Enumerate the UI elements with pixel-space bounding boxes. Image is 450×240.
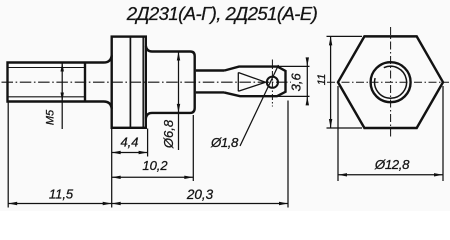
svg-text:Ø6,8: Ø6,8 — [161, 119, 176, 149]
svg-text:11: 11 — [316, 74, 328, 85]
svg-text:11,5: 11,5 — [49, 187, 74, 202]
svg-text:20,3: 20,3 — [186, 187, 214, 202]
svg-text:Ø12,8: Ø12,8 — [374, 157, 410, 172]
svg-text:10,2: 10,2 — [142, 158, 168, 173]
svg-text:2Д231(А-Г), 2Д251(А-Е): 2Д231(А-Г), 2Д251(А-Е) — [126, 3, 318, 24]
svg-text:М5: М5 — [45, 109, 57, 125]
svg-text:3,6: 3,6 — [288, 72, 303, 91]
svg-text:4,4: 4,4 — [120, 135, 138, 150]
svg-text:Ø1,8: Ø1,8 — [210, 135, 239, 150]
